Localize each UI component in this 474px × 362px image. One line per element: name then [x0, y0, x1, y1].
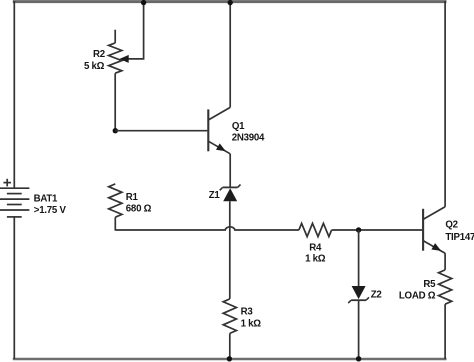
svg-text:1 kΩ: 1 kΩ [241, 318, 262, 329]
transistor Q2 TIP147 [423, 207, 445, 253]
wire: top rail to R2 wiper (vertical at x=143.6) [128, 1, 144, 59]
junction dot: R2 bottom / R1 top / Q1 base node [113, 128, 118, 133]
svg-text:R1: R1 [126, 192, 139, 203]
junction dot: R3 at bottom rail [227, 356, 232, 361]
wire: top supply rail [13, 0, 447, 3]
svg-text:5 kΩ: 5 kΩ [84, 61, 105, 72]
svg-text:>1.75 V: >1.75 V [34, 205, 67, 216]
resistor R3 (1 k) [223, 299, 236, 360]
wire: Q2 emitter down to R5 [444, 253, 446, 270]
R2 wiper arrowhead [120, 55, 129, 63]
svg-text:Z2: Z2 [371, 290, 382, 301]
wire: right border, top rail down to Q2 collector [444, 1, 446, 207]
resistor R1 (680 Ohm) [109, 184, 122, 231]
zener diode Z1 (cathode up) [220, 185, 241, 191]
Q2 emitter arrowhead [431, 243, 441, 251]
battery BAT1 plus sign [3, 179, 11, 187]
wire: R1 bottom along mid node to R4 (with hop over Z1 wire) [115, 227, 299, 230]
svg-text:TIP147: TIP147 [445, 232, 474, 243]
wire: R4 right to Q2 base [332, 229, 423, 231]
battery BAT1 [0, 188, 29, 217]
svg-text:Q2: Q2 [445, 219, 457, 230]
wire: Q1 collector to top rail [229, 1, 231, 107]
junction dot: mid wire / Z2 branch [356, 227, 361, 232]
wire: left branch from top rail to battery positive [13, 1, 15, 188]
transistor Q1 2N3904 (NPN) [208, 107, 230, 153]
svg-text:2N3904: 2N3904 [232, 132, 265, 143]
junction dot at top rail / Q1 collector [228, 0, 233, 5]
resistor R5 (LOAD) [439, 270, 452, 304]
resistor R4 (1 k, horizontal) [299, 223, 332, 236]
svg-text:R4: R4 [309, 243, 322, 254]
svg-text:BAT1: BAT1 [34, 194, 58, 205]
wire: Q1 emitter down to Z1 cathode [229, 154, 231, 188]
junction dot at top rail / wiper wire [141, 0, 146, 5]
svg-text:Q1: Q1 [232, 121, 245, 132]
svg-text:LOAD Ω: LOAD Ω [399, 291, 436, 302]
wire: node to Q1 base [115, 130, 207, 132]
Z2 cathode bar with zener wings [348, 297, 369, 303]
junction dot: Z2 at bottom rail [356, 356, 361, 361]
potentiometer R2 (5 k) [109, 30, 122, 131]
wire: bottom ground rail [13, 358, 447, 361]
wire: R5 to bottom rail [444, 304, 446, 359]
zener diode Z2 (cathode down) triangle [352, 286, 366, 299]
wire: node down to Z2 cathode... anode top [358, 230, 360, 286]
Q1 emitter arrowhead [216, 143, 226, 151]
svg-text:1 kΩ: 1 kΩ [305, 253, 326, 264]
svg-text:Z1: Z1 [209, 190, 221, 201]
wire: battery negative to bottom rail [13, 217, 15, 359]
svg-text:R3: R3 [241, 306, 254, 317]
svg-text:R5: R5 [423, 279, 436, 290]
wire: Z2 to bottom rail [358, 300, 360, 359]
wire: Z1 anode down to R3 (crosses mid wire) [229, 201, 231, 299]
Z1 triangle (anode, pointing up) [223, 188, 237, 201]
svg-text:R2: R2 [93, 49, 105, 60]
svg-text:680 Ω: 680 Ω [126, 204, 152, 215]
